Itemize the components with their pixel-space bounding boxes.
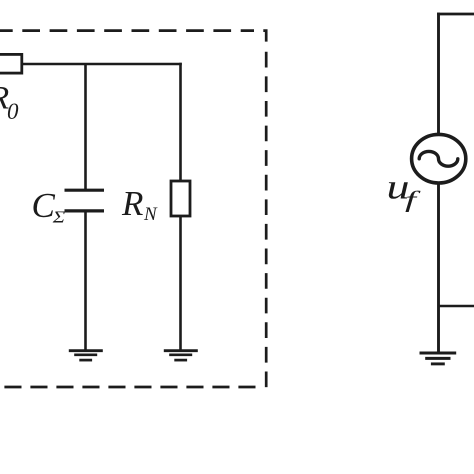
source uf sine	[419, 151, 458, 166]
wire source top horizontal	[437, 13, 474, 16]
wire resistor RN branch bottom	[179, 216, 182, 351]
label CSigma	[32, 186, 66, 226]
svg-text:N: N	[143, 204, 158, 225]
svg-text:Σ: Σ	[52, 207, 66, 226]
wire capacitor branch bottom	[84, 211, 87, 351]
wire output branch	[439, 305, 474, 308]
resistor RN	[171, 181, 190, 216]
ground 1	[69, 351, 103, 360]
label R0	[0, 81, 19, 125]
dashed boundary box	[0, 31, 266, 388]
wire source bottom	[437, 182, 440, 353]
wire resistor RN branch top	[179, 63, 182, 181]
svg-text:f: f	[405, 187, 422, 212]
ground 2	[164, 351, 198, 360]
svg-text:R: R	[121, 184, 143, 223]
capacitor CSigma	[65, 190, 105, 211]
resistor R0	[0, 54, 22, 73]
source uf circle	[412, 134, 466, 183]
label RN	[121, 184, 158, 225]
wire capacitor branch top	[84, 64, 87, 190]
wire source top vertical	[437, 13, 440, 136]
label uf	[387, 168, 423, 213]
ground 3	[420, 353, 457, 364]
wire top rail	[22, 63, 182, 66]
svg-text:0: 0	[7, 99, 19, 124]
